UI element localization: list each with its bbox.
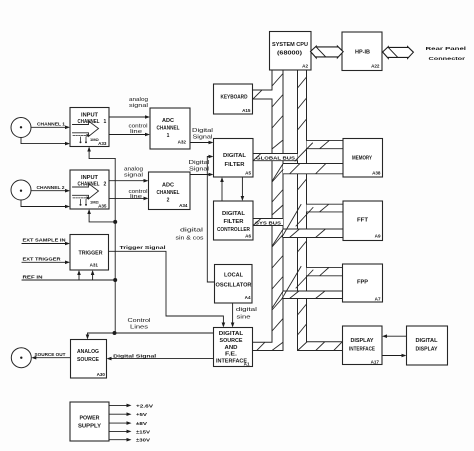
wire: adc2 digital signal to digital filter	[190, 174, 210, 176]
wire: input ch1 control line to adc1	[109, 134, 146, 136]
box: digital source and f.e. interface A1	[214, 328, 253, 367]
svg-text:CHANNEL: CHANNEL	[157, 126, 180, 132]
wire: ext trigger	[22, 261, 66, 263]
svg-text:sin & cos: sin & cos	[176, 235, 205, 241]
wire: control branch into input channel 2	[89, 213, 115, 222]
wire: channel 2 input to input channel 2	[21, 191, 66, 207]
memory upper bus band	[307, 140, 344, 148]
wire: control branch into input channel 1	[89, 151, 115, 159]
svg-text:A7: A7	[375, 296, 381, 301]
right bus elbow corner diagonal and hatches	[298, 342, 342, 350]
svg-text:+2.6V: +2.6V	[136, 403, 154, 409]
svg-text:A33: A33	[98, 141, 107, 146]
wire: channel 1 input to input channel 1	[21, 127, 66, 143]
svg-text:±30V: ±30V	[136, 438, 151, 444]
svg-text:A15: A15	[242, 108, 251, 113]
svg-text:A5: A5	[245, 171, 251, 176]
svg-text:GLOBAL BUS: GLOBAL BUS	[256, 156, 296, 162]
svg-text:F.E.: F.E.	[225, 352, 238, 358]
svg-text:EXT SAMPLE IN: EXT SAMPLE IN	[23, 237, 67, 243]
ribbon arrow: hp-ib to rear panel	[383, 47, 414, 59]
svg-text:Digital: Digital	[192, 128, 213, 134]
box: adc channel 2 A34	[149, 172, 191, 210]
wire: digital filter controller up to digital filter	[221, 181, 223, 201]
box: trigger A31	[70, 235, 109, 271]
svg-text:CHANNEL 2: CHANNEL 2	[37, 185, 65, 191]
svg-text:AND: AND	[225, 345, 238, 351]
svg-text:FPP: FPP	[357, 280, 369, 286]
wire: analog source to source out connector	[35, 357, 71, 359]
box: local oscillator A4	[215, 265, 253, 304]
svg-text:A35: A35	[98, 204, 107, 209]
svg-text:FFT: FFT	[357, 218, 368, 224]
wire: local oscillator digital sine to digital source	[232, 303, 234, 324]
wire: input ch2 analog signal to adc2	[109, 180, 145, 182]
left bus hatches	[272, 74, 283, 332]
svg-text:SOURCE: SOURCE	[77, 357, 100, 363]
svg-text:A30: A30	[97, 372, 106, 377]
svg-text:±15V: ±15V	[136, 429, 151, 435]
box: fft A9	[343, 201, 383, 241]
memory junction diagonals	[273, 143, 313, 181]
box: analog source A30	[71, 340, 107, 379]
box: system cpu A2	[270, 32, 312, 71]
wire: ext sample in	[22, 243, 66, 245]
wire: adc1 digital signal to digital filter	[190, 142, 210, 144]
svg-text:SYS BUS: SYS BUS	[255, 221, 282, 227]
sys bus horizontal band with label	[253, 219, 283, 227]
global bus vertical (left bus body)	[253, 70, 283, 351]
svg-text:A1: A1	[244, 362, 250, 367]
svg-text:digital: digital	[236, 307, 257, 313]
svg-text:Digital: Digital	[189, 160, 210, 166]
svg-text:DIGITAL: DIGITAL	[223, 153, 246, 159]
svg-text:Control: Control	[128, 318, 151, 324]
svg-text:2: 2	[167, 198, 170, 204]
svg-text:OSCILLATOR: OSCILLATOR	[216, 282, 252, 288]
svg-text:EXT TRIGGER: EXT TRIGGER	[23, 257, 62, 263]
svg-text:ADC: ADC	[162, 183, 174, 189]
svg-text:SOURCE OUT: SOURCE OUT	[35, 352, 66, 358]
svg-text:DIGITAL: DIGITAL	[219, 331, 244, 337]
svg-text:Signal: Signal	[189, 166, 209, 172]
connector: channel 2 input	[11, 180, 31, 200]
svg-text:DISPLAY: DISPLAY	[351, 338, 375, 344]
fft lower bus band	[283, 229, 343, 238]
wire: power supply outputs	[109, 405, 128, 439]
svg-text:SYSTEM CPU: SYSTEM CPU	[272, 42, 308, 48]
svg-text:Connector: Connector	[429, 56, 466, 62]
keyboard-to-bus band	[253, 90, 273, 99]
svg-text:A32: A32	[178, 140, 187, 145]
svg-text:sine: sine	[237, 315, 251, 321]
fpp lower bus band	[283, 291, 343, 299]
svg-text:MEMORY: MEMORY	[352, 155, 373, 161]
svg-text:CONTROLLER: CONTROLLER	[217, 227, 250, 233]
wire: input ch1 analog signal to adc1	[109, 116, 146, 118]
svg-text:1: 1	[104, 119, 107, 125]
right bus hatches	[298, 77, 307, 335]
svg-text:digital: digital	[180, 228, 203, 234]
fpp upper bus band	[307, 267, 344, 275]
fft junction diagonals	[273, 205, 314, 246]
box: input channel 1 A33	[70, 108, 109, 147]
svg-text:DIGITAL: DIGITAL	[416, 338, 438, 344]
svg-text:line: line	[130, 129, 142, 135]
svg-text:FILTER: FILTER	[224, 219, 244, 225]
svg-text:A9: A9	[375, 233, 381, 238]
wire: input ch2 control line to adc2	[109, 197, 145, 199]
box: fpp A7	[343, 264, 383, 302]
box: digital filter A5	[214, 139, 254, 178]
svg-text:CHANNEL: CHANNEL	[157, 190, 180, 196]
svg-text:A17: A17	[371, 359, 380, 364]
box: keyboard A15	[214, 84, 253, 114]
box: display interface A17	[343, 326, 383, 365]
svg-text:ANALOG: ANALOG	[77, 349, 99, 355]
svg-text:signal: signal	[129, 103, 148, 109]
box: memory A38	[343, 139, 383, 178]
box: digital display	[407, 326, 448, 365]
wire: display interface to digital display arrows	[386, 335, 407, 337]
wire: control lines vertical with junction dots	[114, 159, 116, 333]
svg-text:+5V: +5V	[136, 412, 148, 418]
svg-text:SUPPLY: SUPPLY	[78, 424, 102, 430]
svg-text:INPUT: INPUT	[81, 112, 98, 118]
box: input channel 2 A35	[70, 170, 109, 209]
svg-text:A31: A31	[90, 262, 99, 267]
svg-text:Digital Signal: Digital Signal	[113, 353, 156, 359]
wire: ref in with branches up into trigger	[22, 274, 115, 280]
svg-text:Rear Panel: Rear Panel	[426, 46, 467, 52]
svg-text:A4: A4	[245, 295, 251, 300]
box: adc channel 1 A32	[150, 108, 190, 149]
svg-text:±8V: ±8V	[136, 421, 148, 427]
connector: channel 1 input	[11, 118, 31, 138]
connector: source out	[11, 348, 31, 368]
box: digital filter controller A6	[214, 201, 254, 240]
svg-text:SOURCE: SOURCE	[220, 338, 244, 344]
svg-text:A34: A34	[179, 203, 188, 208]
svg-text:DISPLAY: DISPLAY	[416, 346, 439, 352]
svg-text:ADC: ADC	[162, 118, 174, 124]
svg-text:FILTER: FILTER	[225, 162, 245, 168]
ribbon arrow: cpu to hp-ib	[311, 46, 344, 58]
svg-text:REF IN: REF IN	[23, 274, 44, 280]
svg-text:KEYBOARD: KEYBOARD	[221, 94, 248, 100]
svg-text:signal: signal	[124, 173, 143, 179]
fft upper bus band	[307, 204, 344, 212]
svg-text:1: 1	[167, 133, 170, 139]
wire: trigger signal to digital source	[109, 251, 224, 323]
left bus elbow corner diagonal and hatch	[257, 343, 283, 351]
svg-text:A2: A2	[302, 64, 308, 69]
svg-text:line: line	[130, 194, 142, 200]
box: hp-ib A22	[342, 32, 382, 71]
svg-text:2: 2	[104, 182, 107, 188]
svg-text:DIGITAL: DIGITAL	[222, 211, 245, 217]
svg-text:(68000): (68000)	[277, 51, 302, 57]
global bus horizontal band with label	[253, 154, 298, 162]
fpp junction diagonals	[273, 267, 314, 308]
svg-text:Signal: Signal	[193, 134, 213, 140]
memory lower bus band	[283, 164, 343, 174]
svg-text:TRIGGER: TRIGGER	[79, 251, 103, 257]
wire: digital filter down to controller	[241, 177, 243, 197]
svg-text:LOCAL: LOCAL	[224, 273, 243, 279]
svg-text:HP-IB: HP-IB	[355, 49, 370, 55]
svg-text:A6: A6	[245, 233, 251, 238]
svg-text:INTERFACE: INTERFACE	[349, 346, 376, 352]
svg-text:A38: A38	[372, 171, 381, 176]
svg-text:INPUT: INPUT	[81, 175, 98, 181]
system bus vertical (right bus body)	[298, 70, 343, 351]
box: power supply	[70, 402, 109, 441]
svg-text:POWER: POWER	[80, 416, 100, 422]
svg-text:CHANNEL 1: CHANNEL 1	[37, 122, 65, 128]
svg-text:A22: A22	[371, 64, 380, 69]
wire: control lines from f.e. interface to analog source	[88, 333, 214, 336]
wire: local oscillator sin cos to digital filter	[207, 157, 214, 283]
svg-text:Lines: Lines	[130, 325, 149, 331]
wire: digital signal from f.e. interface to analog source	[111, 358, 214, 360]
svg-text:Trigger Signal: Trigger Signal	[120, 245, 166, 251]
